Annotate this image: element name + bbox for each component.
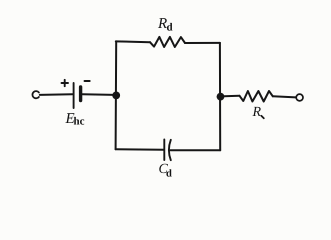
input terminal (left open circle, gap toward wire) xyxy=(32,91,38,98)
node B (right junction dot) xyxy=(217,93,225,101)
wire battery to node A xyxy=(83,93,115,96)
wire: node B to resistor Rs xyxy=(224,95,240,97)
svg-text:d: d xyxy=(166,169,172,180)
resistor Rs zigzag xyxy=(240,91,273,102)
battery E_hc negative plate (short thick) xyxy=(79,87,82,101)
svg-text:R: R xyxy=(252,105,262,120)
wire: top-left horizontal to resistor Rd xyxy=(116,40,150,43)
resistor Rd zigzag xyxy=(150,37,185,47)
output terminal (right open circle) xyxy=(296,94,303,101)
minus sign xyxy=(85,80,90,82)
wire: bottom-left horizontal to capacitor Cd xyxy=(116,148,164,151)
node A (left junction dot) xyxy=(112,92,120,100)
svg-text:d: d xyxy=(167,22,173,34)
wire: left vertical branch xyxy=(115,41,118,149)
battery E_hc positive plate (long) xyxy=(73,83,75,108)
capacitor Cd left plate (straight) xyxy=(163,140,165,161)
wire: capacitor Cd to bottom-right corner xyxy=(170,149,220,151)
capacitor Cd right plate (curved) xyxy=(169,140,171,160)
wire: right vertical branch xyxy=(219,43,221,150)
wire: resistor Rd to top-right corner xyxy=(185,42,220,44)
wire: resistor Rs to output terminal xyxy=(273,96,296,97)
svg-text:hc: hc xyxy=(74,116,85,128)
wire input terminal to battery xyxy=(40,93,73,96)
plus sign xyxy=(62,80,69,86)
